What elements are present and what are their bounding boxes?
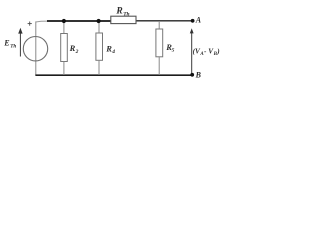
resistor R2 (vertical box) — [63, 21, 65, 34]
resistor R4 (vertical box) — [98, 21, 100, 33]
wire: top rail right segment from R_Th to node A — [136, 20, 192, 22]
junction dot at R2 top — [62, 19, 66, 23]
plus sign of source — [28, 22, 32, 26]
svg-text:R: R — [115, 7, 122, 17]
voltage arrow between A and B — [190, 28, 194, 74]
wire: top rail thick middle segment — [47, 20, 111, 22]
wire: source vertical line through circle — [35, 21, 37, 75]
resistor R5 (vertical box) — [158, 21, 160, 29]
wire: bottom rail — [35, 74, 192, 76]
svg-text:R: R — [69, 43, 76, 53]
svg-text:E: E — [3, 38, 9, 47]
resistor R_Th (horizontal box) — [111, 16, 136, 23]
wire: top rail left segment from source bend — [36, 20, 48, 23]
svg-text:): ) — [216, 48, 219, 56]
svg-text:A: A — [195, 16, 202, 25]
svg-text:2: 2 — [75, 49, 79, 55]
junction dot at R4 top — [97, 19, 101, 23]
svg-text:4: 4 — [111, 49, 115, 55]
svg-text:5: 5 — [172, 48, 175, 54]
svg-text:Th: Th — [10, 43, 16, 49]
svg-text:B: B — [195, 70, 202, 79]
svg-text:Th: Th — [123, 11, 129, 17]
svg-text:R: R — [105, 43, 112, 53]
E_Th arrow — [18, 28, 22, 57]
node B dot — [190, 73, 194, 77]
node A dot — [191, 19, 195, 23]
voltage source E_Th circle — [23, 37, 47, 61]
